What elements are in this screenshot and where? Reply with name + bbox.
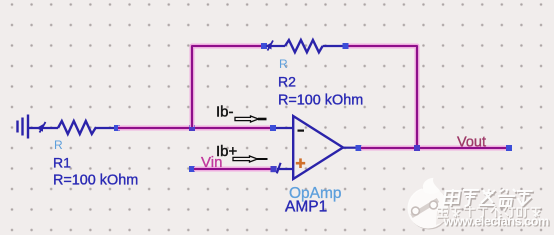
wire: non-inverting pin stub: [277, 168, 294, 170]
watermark slogan CJK ghost shadow: [438, 207, 542, 218]
svg-text:R: R: [54, 138, 63, 152]
node: R1 right pin square: [114, 125, 120, 131]
svg-text:R: R: [279, 57, 288, 71]
pin tick on non-inverting pin: [277, 163, 281, 174]
current arrow Ib-: [235, 116, 267, 122]
wire: R1 to inverting input (horizontal magenta): [118, 126, 272, 131]
wire: feedback left L (inverting node up and over to R2): [192, 46, 263, 127]
svg-text:R2: R2: [278, 74, 296, 90]
node: feedback junction on output wire: [414, 145, 420, 151]
op-amp U1 triangle: [293, 116, 343, 179]
op-amp minus sign: [298, 130, 305, 132]
wire: output to Vout (magenta): [361, 146, 507, 151]
node: R2 right pin square: [343, 43, 349, 49]
node: Vout end square: [506, 145, 512, 151]
watermark logo circle: [408, 178, 453, 230]
node: Vin wire left end square: [189, 166, 195, 172]
svg-text:Ib-: Ib-: [216, 104, 234, 121]
svg-text:Vin: Vin: [201, 154, 222, 171]
node: non-inverting pin square: [271, 166, 277, 172]
watermark big CJK ghost text: [444, 189, 533, 206]
pin tick on R1 pin 1: [37, 122, 46, 133]
node: feedback junction on inverting wire: [189, 125, 195, 131]
watermark slogan CJK ghost text: [437, 206, 541, 217]
svg-text:AMP1: AMP1: [285, 199, 327, 216]
node: output pin square: [356, 145, 362, 151]
wire: inverting pin stub: [276, 127, 294, 129]
resistor R1: [58, 121, 114, 134]
node: R2 left pin square: [261, 43, 267, 49]
node: inverting input pin square: [270, 125, 276, 131]
svg-text:R=100 kOhm: R=100 kOhm: [278, 93, 363, 109]
wire: feedback right L (R2 over and down to output): [346, 46, 417, 148]
op-amp plus sign: [296, 158, 305, 168]
svg-text:Vout: Vout: [457, 135, 486, 151]
svg-text:www.elecfans.com: www.elecfans.com: [443, 214, 549, 229]
ground (port) symbol: [18, 115, 29, 139]
pin tick on R2 pin 1: [266, 41, 274, 51]
watermark big CJK ghost shadow: [445, 191, 534, 208]
svg-text:R=100 kOhm: R=100 kOhm: [53, 173, 138, 189]
resistor R2: [269, 40, 343, 52]
wire: ground to R1 lead: [28, 127, 58, 129]
svg-text:R1: R1: [53, 155, 71, 171]
current arrow Ib+: [233, 156, 268, 162]
wire: Vin to non-inverting input (magenta): [194, 167, 275, 172]
wire: output pin stub: [342, 147, 357, 149]
